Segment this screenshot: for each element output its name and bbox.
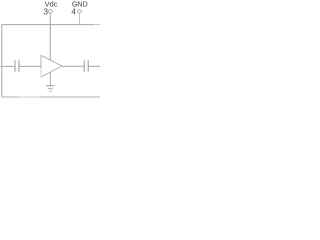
box bottom edge right section xyxy=(40,96,100,98)
pin 3 terminal circle xyxy=(49,10,53,14)
box bottom edge xyxy=(2,96,18,98)
svg-text:4: 4 xyxy=(71,7,76,16)
ground bar 1 xyxy=(46,85,55,87)
subcircuit box (left, top, bottom edges; right edge cropped) xyxy=(2,25,94,97)
op-amp U1 triangle lower-left edge (faint) xyxy=(40,68,42,77)
box bottom edge faint middle section xyxy=(18,96,40,98)
capacitor C1 right plate xyxy=(18,60,20,72)
ground bar 3 xyxy=(49,91,52,93)
capacitor C1 left plate xyxy=(14,60,16,72)
wire C1 to op-amp input xyxy=(19,65,41,67)
svg-text:3: 3 xyxy=(43,7,48,16)
capacitor C2 left plate xyxy=(83,60,85,72)
wire pin 4 GND stub xyxy=(79,13,81,24)
ground bar 2 xyxy=(48,88,53,90)
pin 4 terminal circle xyxy=(78,10,82,14)
box top edge faded right end xyxy=(94,24,100,26)
wire pin 3 Vdc supply into op-amp xyxy=(49,13,51,60)
capacitor C2 right plate xyxy=(87,60,89,72)
wire op-amp to ground xyxy=(49,72,51,86)
op-amp U1 triangle xyxy=(41,55,62,68)
wire input lead inside box xyxy=(2,65,15,67)
wire output lead xyxy=(88,65,100,67)
wire op-amp output xyxy=(62,65,84,67)
op-amp U1 triangle lower hypotenuse xyxy=(41,66,62,77)
wire input lead xyxy=(0,65,2,67)
